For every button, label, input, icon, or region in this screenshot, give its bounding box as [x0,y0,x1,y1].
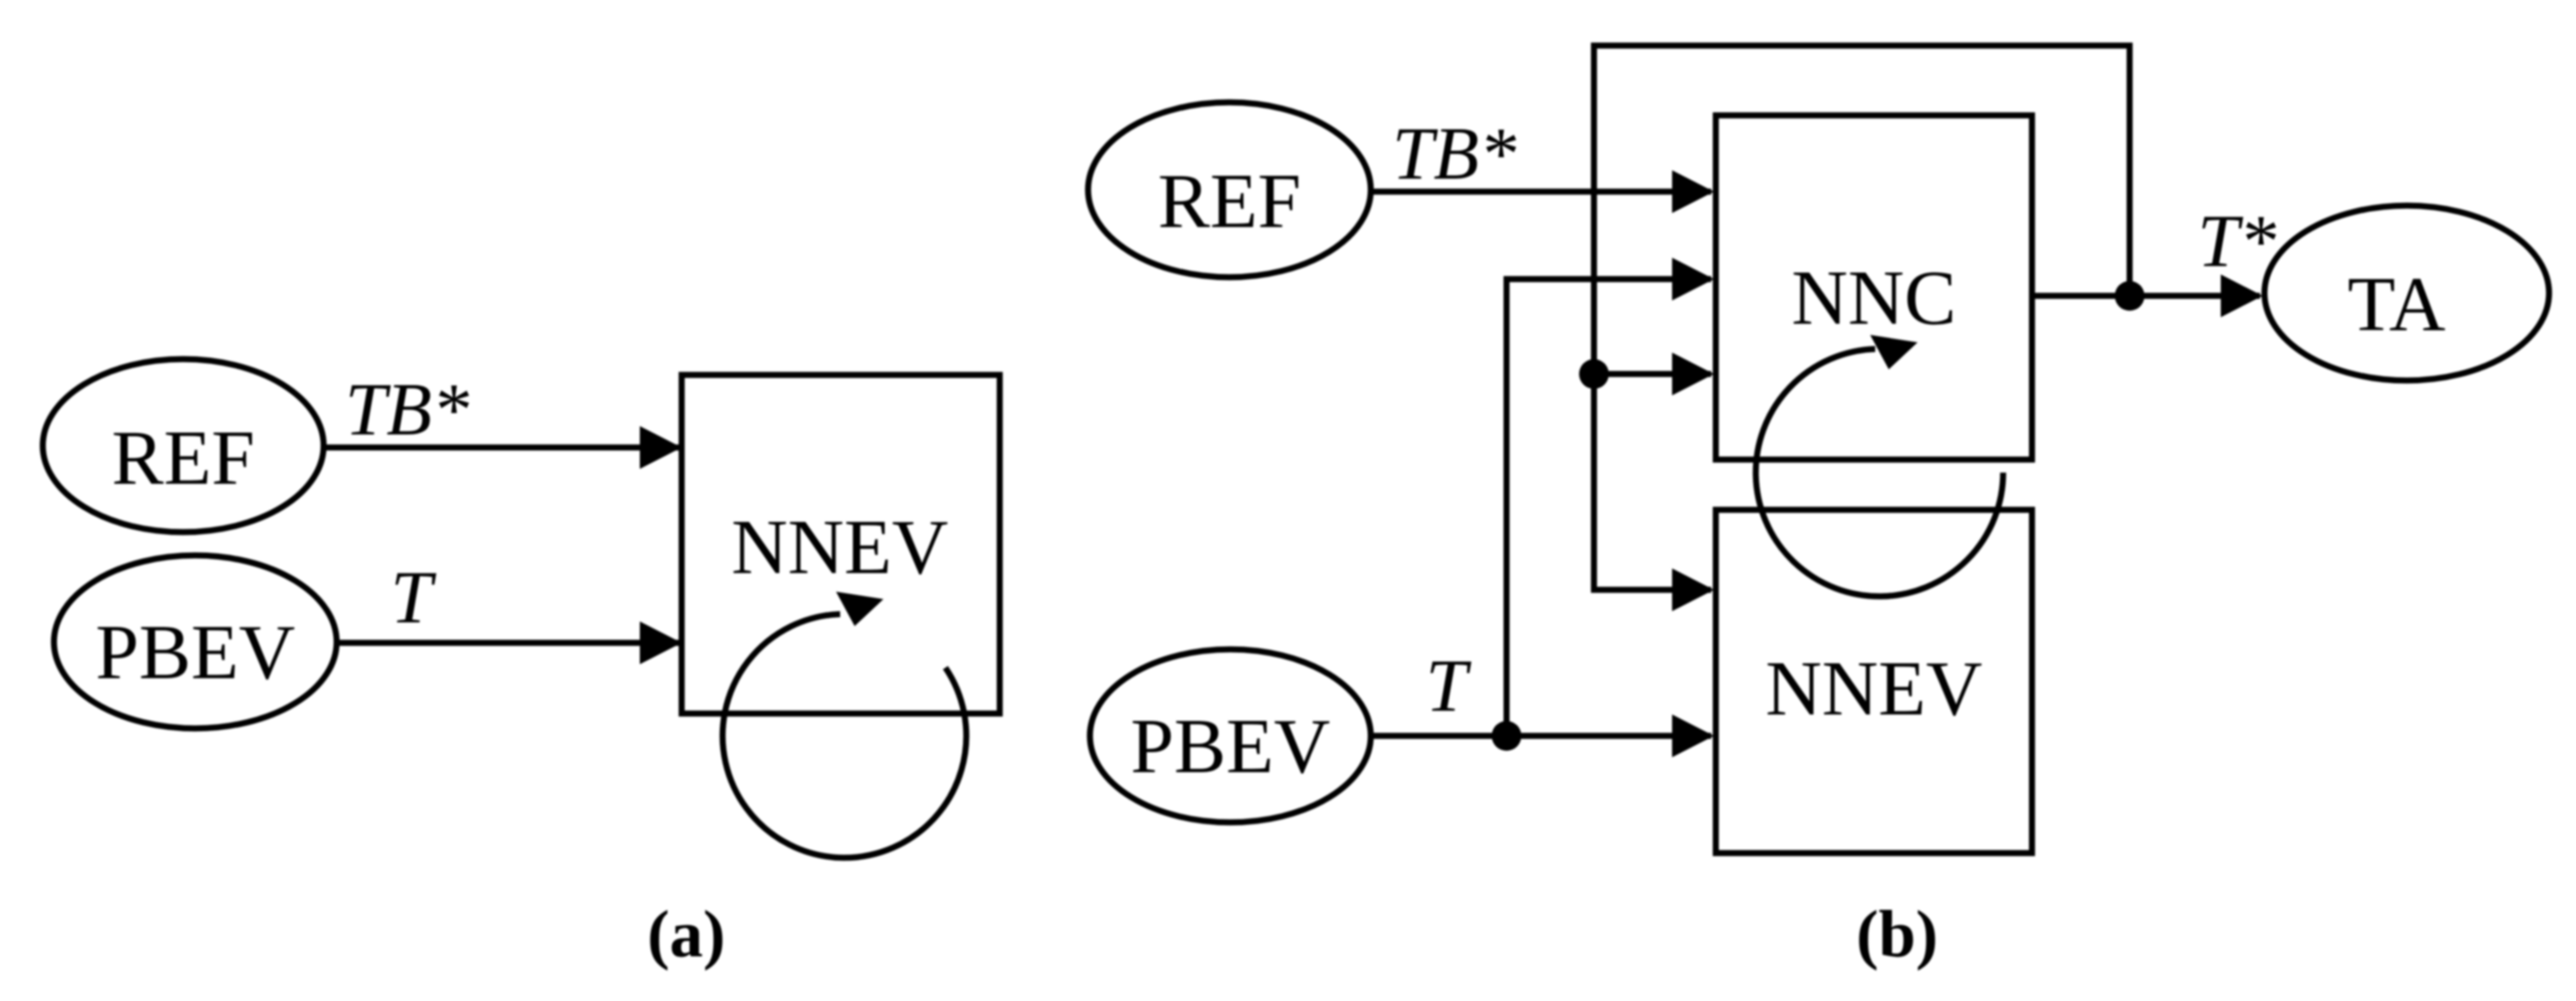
svg-text:TB*: TB* [1392,113,1516,195]
svg-text:REF: REF [112,415,255,501]
svg-text:NNEV: NNEV [1765,646,1982,732]
svg-text:T*: T* [2198,201,2277,283]
svg-text:TB*: TB* [345,369,469,451]
svg-text:PBEV: PBEV [96,609,296,696]
svg-text:PBEV: PBEV [1131,703,1331,790]
svg-text:(b): (b) [1856,897,1938,971]
svg-text:T: T [1426,646,1472,727]
svg-text:REF: REF [1158,158,1301,245]
svg-text:T: T [391,557,437,639]
svg-text:NNC: NNC [1791,255,1956,341]
svg-text:TA: TA [2347,261,2446,348]
svg-text:(a): (a) [647,897,725,971]
svg-text:NNEV: NNEV [731,504,948,591]
